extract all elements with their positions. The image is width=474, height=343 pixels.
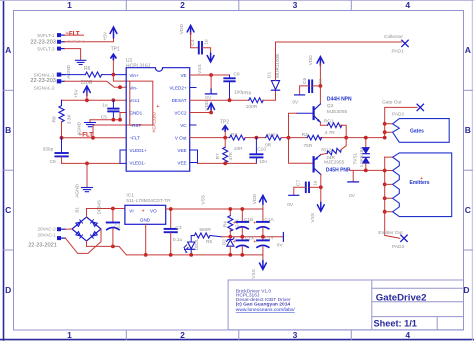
capacitor C1B — [233, 209, 253, 237]
svg-text:A: A — [5, 45, 11, 55]
svg-text:D1: D1 — [267, 72, 273, 78]
svg-text:+5V: +5V — [73, 89, 79, 98]
wire DESAT line — [190, 99, 249, 101]
wire IC1 GND to VSS rail — [145, 224, 147, 255]
svg-text:~RST: ~RST — [129, 123, 141, 128]
svg-text:IC1: IC1 — [126, 193, 134, 199]
power arrow VDD at C4 — [179, 24, 194, 35]
svg-text:100p: 100p — [234, 89, 245, 95]
svg-text:GateDrive2: GateDrive2 — [376, 293, 427, 304]
capacitor C3 0.1u — [165, 209, 183, 255]
svg-text:0V: 0V — [287, 202, 294, 208]
svg-text:VDD: VDD — [308, 55, 314, 66]
svg-text:0.1u: 0.1u — [173, 237, 183, 243]
junction TP1/Vin+ — [112, 73, 116, 77]
svg-text:+: + — [142, 208, 145, 214]
outer border left — [3, 0, 5, 340]
svg-text:D: D — [5, 285, 11, 295]
junction C5 top — [112, 98, 116, 102]
U1 stub VC — [190, 124, 197, 126]
title block line below GateDrive2 — [372, 301, 464, 303]
capacitor C4 1u — [190, 33, 211, 54]
wire R6 to Vin+ — [102, 74, 127, 76]
junction gate tip 2 — [383, 130, 387, 134]
capacitor C6 1u — [292, 78, 323, 106]
resistor R3 10R — [230, 132, 246, 152]
resistor R4 24K — [222, 209, 240, 237]
junction emitter tip 3 — [383, 183, 387, 187]
resistor R9 100R — [245, 91, 263, 110]
testpoint TP1 — [111, 47, 120, 75]
svg-text:+: + — [156, 104, 159, 110]
svg-text:PAD3: PAD3 — [392, 244, 405, 250]
svg-text:HCPL316J: HCPL316J — [126, 64, 151, 70]
svg-text:Emitter Out: Emitter Out — [378, 230, 403, 236]
svg-text:R6: R6 — [84, 66, 91, 72]
svg-text:330p: 330p — [43, 146, 54, 152]
svg-text:10R: 10R — [234, 146, 243, 152]
svg-text:VLED1+: VLED1+ — [129, 148, 147, 153]
connector J2 labels — [34, 72, 55, 90]
svg-text:C: C — [5, 205, 11, 215]
title block box — [228, 280, 463, 330]
svg-text:560R: 560R — [199, 227, 211, 233]
regulator IC1 511-L78M24CDT-TR — [125, 193, 171, 225]
svg-text:D45H PNP: D45H PNP — [326, 168, 351, 174]
svg-text:22-23-203: 22-23-203 — [30, 78, 56, 84]
wire emitter vertical — [385, 157, 400, 238]
svg-text:LED1: LED1 — [194, 238, 199, 250]
ground 0V at emitter rail — [348, 170, 359, 198]
wire VE to C9 — [190, 74, 230, 76]
junction emitter tip 5 — [383, 210, 387, 214]
svg-text:+: + — [233, 239, 236, 245]
svg-text:SIGNAL-2: SIGNAL-2 — [34, 86, 55, 91]
outer border right — [471, 0, 473, 340]
left zone tick 1 — [4, 89, 14, 91]
wire emitter rail — [349, 169, 384, 171]
svg-text:GND1: GND1 — [129, 110, 142, 115]
connector J3 labels — [37, 227, 56, 238]
svg-text:C6: C6 — [302, 78, 308, 84]
svg-text:VSS: VSS — [201, 195, 207, 205]
wire pin2 to +5V — [65, 34, 114, 42]
bridge B1 DF04S — [72, 200, 101, 241]
svg-text:AGND: AGND — [74, 183, 80, 197]
junction LED1 rail — [189, 253, 193, 257]
junction C5 bottom — [112, 118, 116, 122]
LED LED1 — [184, 236, 199, 255]
supply bar 0V mid rail — [277, 233, 284, 249]
junction C2 bottom — [111, 245, 115, 249]
svg-text:1.5KE18A: 1.5KE18A — [359, 146, 364, 168]
resistor RG1 4.7R — [320, 118, 346, 138]
svg-text:5VFLT-3: 5VFLT-3 — [37, 46, 55, 51]
U1 left pin labels — [129, 73, 147, 166]
svg-text:2: 2 — [180, 330, 185, 340]
wire VO VDD rail — [166, 208, 263, 210]
capacitor C7 1u — [287, 180, 321, 209]
wire SIGNAL-2 to Vin- with jog — [65, 81, 127, 87]
svg-text:VO: VO — [150, 209, 157, 214]
junction C9 bottom DESAT — [228, 98, 232, 102]
svg-text:SIGNAL-1: SIGNAL-1 — [34, 72, 55, 77]
wire D1 to collector pad — [276, 42, 402, 81]
svg-text:VDD: VDD — [179, 24, 185, 35]
svg-text:~FLT: ~FLT — [66, 31, 80, 37]
svg-text:C9: C9 — [233, 71, 239, 77]
capacitor C1X — [233, 235, 255, 255]
top zone tick 2 — [238, 0, 240, 11]
junction VCC2 — [209, 111, 213, 115]
svg-text:B: B — [465, 125, 471, 135]
right zone tick 2 — [464, 169, 473, 171]
junction R7 bottom — [223, 162, 227, 166]
wire SIGNAL-1 to R6 — [65, 74, 86, 76]
svg-text:VSS: VSS — [197, 64, 203, 74]
svg-text:1u: 1u — [313, 180, 319, 186]
svg-text:R8: R8 — [52, 116, 58, 122]
junction gate tip 1 — [383, 122, 387, 126]
svg-text:TP1: TP1 — [111, 47, 120, 53]
wire ~FLT net — [62, 137, 127, 139]
resistor R6 220R — [81, 66, 102, 86]
U1 stub VLED2+ — [190, 87, 197, 89]
power arrow VSS below rail — [251, 255, 266, 279]
svg-text:R4: R4 — [222, 221, 228, 227]
resistor R5 560R — [194, 227, 221, 245]
wire VEE line — [190, 150, 198, 163]
svg-text:R5: R5 — [206, 239, 212, 245]
testpoint TP2 — [220, 119, 229, 137]
svg-text:+: + — [233, 221, 236, 227]
junction Vin- — [118, 85, 122, 89]
wire R3 to JMP1 — [245, 137, 265, 139]
transistor Q4 D45H PNP MJE2955 — [314, 155, 351, 175]
svg-text:(c) Gao Guangyan 2014: (c) Gao Guangyan 2014 — [236, 302, 291, 308]
capacitor C9 100p — [224, 71, 245, 100]
svg-text:VCC2: VCC2 — [174, 110, 187, 115]
junction C6 — [319, 84, 323, 88]
capacitor C5 1u — [101, 100, 119, 120]
svg-text:20VAC-1: 20VAC-1 — [37, 232, 56, 237]
svg-text:4: 4 — [405, 330, 410, 340]
junction TP2 / R7 — [223, 136, 227, 140]
svg-text:100R: 100R — [246, 104, 258, 110]
transistor Q3 D44H NPN MJE3055 — [297, 96, 353, 122]
svg-text:C7: C7 — [295, 180, 301, 186]
svg-text:R9: R9 — [245, 91, 251, 97]
U1 right pin labels — [169, 73, 187, 166]
svg-text:47K: 47K — [228, 151, 234, 160]
svg-text:www.loneoceans.com/labs/: www.loneoceans.com/labs/ — [236, 307, 296, 313]
junction C2 top — [111, 207, 115, 211]
wire bridge bottom to VSS rail — [87, 241, 127, 255]
svg-text:DESAT: DESAT — [172, 98, 187, 103]
junction TVS top — [364, 136, 368, 140]
svg-text:4.7R: 4.7R — [325, 130, 336, 136]
svg-text:A: A — [465, 45, 471, 55]
bottom zone tick 1 — [125, 330, 127, 340]
pad PAD3 Emitter Out — [378, 230, 407, 250]
jumper JMP1 0R — [265, 132, 281, 148]
junction IC1 GND rail — [144, 253, 148, 257]
wire bridge top to VI line — [87, 209, 125, 218]
wire VDD to Q3 collector — [319, 64, 321, 104]
svg-text:Vcc1: Vcc1 — [129, 98, 140, 103]
junction gate R2 line — [383, 136, 387, 140]
connector J2 22-23-203 SIGNAL pins — [57, 73, 64, 83]
right zone tick 1 — [464, 89, 473, 91]
wire R9 to D1 — [263, 91, 276, 100]
svg-text:Sheet: 1/1: Sheet: 1/1 — [374, 319, 417, 329]
connector flag Gates — [393, 119, 450, 143]
wire emitter stubs to flag — [385, 157, 393, 212]
resistor R7 47K — [215, 138, 234, 164]
svg-text:+5V: +5V — [103, 31, 109, 40]
svg-text:+: + — [253, 239, 256, 245]
wire inner rect left edge — [129, 81, 131, 125]
ground 0V at VE — [205, 75, 216, 101]
pad PAD1 Collector — [384, 34, 408, 55]
connector flag Emitters — [393, 153, 452, 217]
svg-text:2: 2 — [180, 0, 185, 10]
capacitor C10 10n — [250, 138, 267, 166]
svg-text:Vin+: Vin+ — [129, 73, 139, 78]
capacitor C8 330p — [43, 138, 68, 165]
svg-text:AGND: AGND — [77, 121, 83, 135]
outer border top — [0, 0, 474, 2]
bottom zone tick 3 — [350, 330, 352, 340]
wire TP1 net loop to ~RST — [93, 75, 153, 138]
svg-text:0V: 0V — [349, 193, 356, 199]
diode D1 MUR1100E — [267, 54, 282, 91]
svg-text:3: 3 — [293, 0, 298, 10]
svg-text:C2: C2 — [114, 223, 120, 229]
svg-text:1u: 1u — [203, 39, 209, 45]
title block sheet row line — [372, 316, 464, 318]
svg-text:24R: 24R — [326, 155, 335, 161]
resistor RG2 24R — [321, 138, 346, 161]
wire VSS rail — [126, 254, 263, 256]
wire 0V mid rail — [222, 236, 284, 238]
connector J1 labels — [37, 33, 55, 52]
wire Q4 collector to VSS — [320, 174, 322, 187]
svg-text:C8: C8 — [50, 159, 56, 165]
svg-text:B1: B1 — [75, 207, 80, 213]
svg-text:20VAC-2: 20VAC-2 — [37, 227, 56, 232]
left zone tick 2 — [4, 169, 14, 171]
svg-text:VE: VE — [180, 73, 186, 78]
wire Vcc1 +5V rail — [62, 99, 127, 101]
svg-text:75R: 75R — [303, 143, 312, 149]
svg-text:PAD2: PAD2 — [392, 112, 405, 118]
wire R2 line to gate vertical — [346, 137, 385, 139]
capacitor C1Y — [253, 235, 274, 255]
svg-text:C3: C3 — [175, 225, 181, 231]
svg-text:VC: VC — [180, 123, 187, 128]
svg-text:4: 4 — [405, 0, 410, 10]
svg-text:C: C — [465, 205, 471, 215]
junction GND1 elbow — [118, 118, 122, 122]
top zone tick 1 — [125, 0, 127, 11]
junction C1A bottom — [261, 235, 265, 239]
svg-text:VLED2+: VLED2+ — [169, 85, 187, 90]
svg-text:Q3: Q3 — [327, 103, 334, 109]
junction ~RST/~FLT — [91, 136, 95, 140]
svg-text:22-23-203: 22-23-203 — [30, 39, 56, 45]
svg-text:PAD1: PAD1 — [392, 48, 405, 54]
svg-text:VI: VI — [129, 209, 133, 214]
power arrow VDD at Q3 — [308, 55, 324, 66]
power arrow VSS down at C4 — [197, 53, 214, 74]
wire gate stubs to flag — [385, 124, 393, 132]
junction C1X bottom — [240, 253, 244, 257]
svg-text:MUR1100E: MUR1100E — [275, 54, 281, 78]
ground AGND near 5VFLT — [75, 60, 86, 64]
op-amp U1 HCPL316J body — [126, 58, 190, 171]
junction emitter tip 4 — [383, 196, 387, 200]
wire VLED1+ tie — [120, 150, 126, 163]
wire pin3 to AGND — [65, 49, 81, 60]
svg-text:GND: GND — [140, 218, 151, 223]
svg-text:D: D — [463, 285, 469, 295]
title block divider vertical — [371, 280, 373, 330]
junction emitter rail — [383, 169, 387, 173]
junction R4 D2 mid — [228, 235, 232, 239]
resistor R2 75R — [289, 132, 347, 149]
svg-text:Gates: Gates — [410, 129, 424, 135]
svg-text:TVS1: TVS1 — [352, 152, 357, 164]
junction R8/~FLT — [60, 136, 64, 140]
wire JMP1 to base node — [281, 137, 288, 139]
wire GND1 ground line — [90, 113, 126, 120]
svg-text:1: 1 — [67, 0, 72, 10]
svg-text:511-L78M24CDT-TR: 511-L78M24CDT-TR — [126, 198, 171, 204]
junction C3 bottom — [169, 253, 173, 257]
svg-text:3.3K: 3.3K — [66, 114, 72, 125]
svg-text:5VFLT-1: 5VFLT-1 — [37, 33, 55, 38]
svg-text:+: + — [253, 221, 256, 227]
junction C7 VSS — [319, 185, 323, 189]
svg-text:D44H NPN: D44H NPN — [327, 96, 352, 102]
svg-text:HCPL316J: HCPL316J — [152, 112, 157, 132]
connector J3 20VAC pins — [58, 228, 66, 240]
svg-text:VEE: VEE — [177, 148, 186, 153]
svg-text:D2: D2 — [222, 239, 227, 245]
left zone tick 3 — [4, 249, 14, 251]
ground AGND below VLED1 — [74, 163, 92, 197]
svg-text:3: 3 — [293, 330, 298, 340]
junction base node — [287, 136, 291, 140]
wire 20VAC-1 under bridge to right corner — [65, 229, 101, 253]
right zone tick 3 — [464, 249, 473, 251]
svg-text:MJE3055: MJE3055 — [327, 109, 348, 115]
svg-text:VLED1-: VLED1- — [129, 160, 146, 165]
power arrow VSS below C7 — [310, 187, 324, 222]
svg-text:10n: 10n — [259, 159, 267, 165]
svg-text:1: 1 — [67, 330, 72, 340]
title block line above GateDrive2 — [372, 287, 464, 289]
outer border bottom — [0, 339, 474, 341]
bottom zone tick 2 — [238, 330, 240, 340]
svg-text:VDD: VDD — [252, 194, 258, 205]
junction TVS bottom — [364, 169, 368, 173]
junction D2 rail — [228, 253, 232, 257]
pad PAD2 Gate Out — [382, 99, 424, 117]
svg-text:~FLT: ~FLT — [129, 135, 140, 140]
power arrow VDD at VCC2 — [204, 100, 214, 113]
ground AGND at C5 — [77, 120, 96, 136]
svg-text:C1B: C1B — [244, 217, 253, 223]
diode D2 zener — [222, 237, 234, 255]
junction RG1/R2 — [344, 136, 348, 140]
wire base node vertical — [289, 113, 313, 163]
svg-text:V Out: V Out — [175, 135, 187, 140]
svg-text:R7: R7 — [215, 153, 221, 159]
junction AGND drop — [85, 162, 89, 166]
wire VLED1- line — [62, 162, 121, 164]
svg-text:0R: 0R — [265, 142, 272, 148]
wire PAD2 to gate vertical — [385, 107, 417, 137]
junction +5V/Vcc1 — [85, 98, 89, 102]
svg-text:Collector: Collector — [384, 34, 403, 40]
svg-text:AGND: AGND — [66, 64, 72, 78]
power arrow +5V mid — [73, 86, 90, 100]
svg-text:RG2: RG2 — [321, 147, 331, 153]
svg-text:Gate Out: Gate Out — [382, 99, 402, 105]
svg-text:5VFLT-2: 5VFLT-2 — [68, 39, 85, 44]
top zone tick 3 — [350, 0, 352, 11]
svg-text:1u: 1u — [318, 78, 324, 84]
title block sheet row divider — [436, 317, 438, 330]
diode TVS1 1.5KE18A — [352, 138, 369, 171]
connector J1 22-23-203 5VFLT pins — [58, 34, 65, 50]
wire V Out line — [190, 137, 230, 139]
capacitor C2 — [107, 209, 121, 247]
wire VCC2 to VDD arrow — [190, 112, 211, 114]
capacitor C1A — [253, 209, 274, 237]
svg-text:C1Y: C1Y — [264, 235, 274, 241]
svg-text:1u: 1u — [102, 102, 108, 108]
junction C3 top — [169, 207, 173, 211]
svg-text:VSS: VSS — [310, 213, 316, 223]
svg-text:0V: 0V — [292, 100, 299, 106]
junction C1B top — [240, 207, 244, 211]
svg-text:B: B — [5, 125, 11, 135]
power arrow VDD above C1A — [252, 194, 266, 209]
svg-text:C1A: C1A — [264, 217, 274, 223]
resistor R8 3.3K — [52, 100, 73, 138]
svg-text:DF04S: DF04S — [96, 200, 101, 214]
wire pin1 to ~FLT stub — [65, 34, 84, 36]
svg-text:VDD: VDD — [204, 100, 210, 111]
svg-text:0V: 0V — [277, 243, 284, 249]
svg-text:TP2: TP2 — [220, 119, 229, 125]
svg-text:VEE: VEE — [177, 160, 186, 165]
svg-text:VSS: VSS — [251, 269, 257, 279]
junction C1B bottom — [240, 235, 244, 239]
power arrow +5V top — [103, 27, 117, 41]
junction C10 top — [255, 136, 259, 140]
svg-text:Emitters: Emitters — [410, 180, 430, 186]
junction R4 VDD rail — [228, 207, 232, 211]
svg-text:22-23-2021: 22-23-2021 — [28, 242, 57, 248]
junction VE 0V — [209, 73, 213, 77]
wire 20VAC-2 to bridge left — [65, 228, 72, 230]
svg-text:Vin-: Vin- — [129, 85, 138, 90]
svg-text:C4: C4 — [190, 39, 196, 45]
